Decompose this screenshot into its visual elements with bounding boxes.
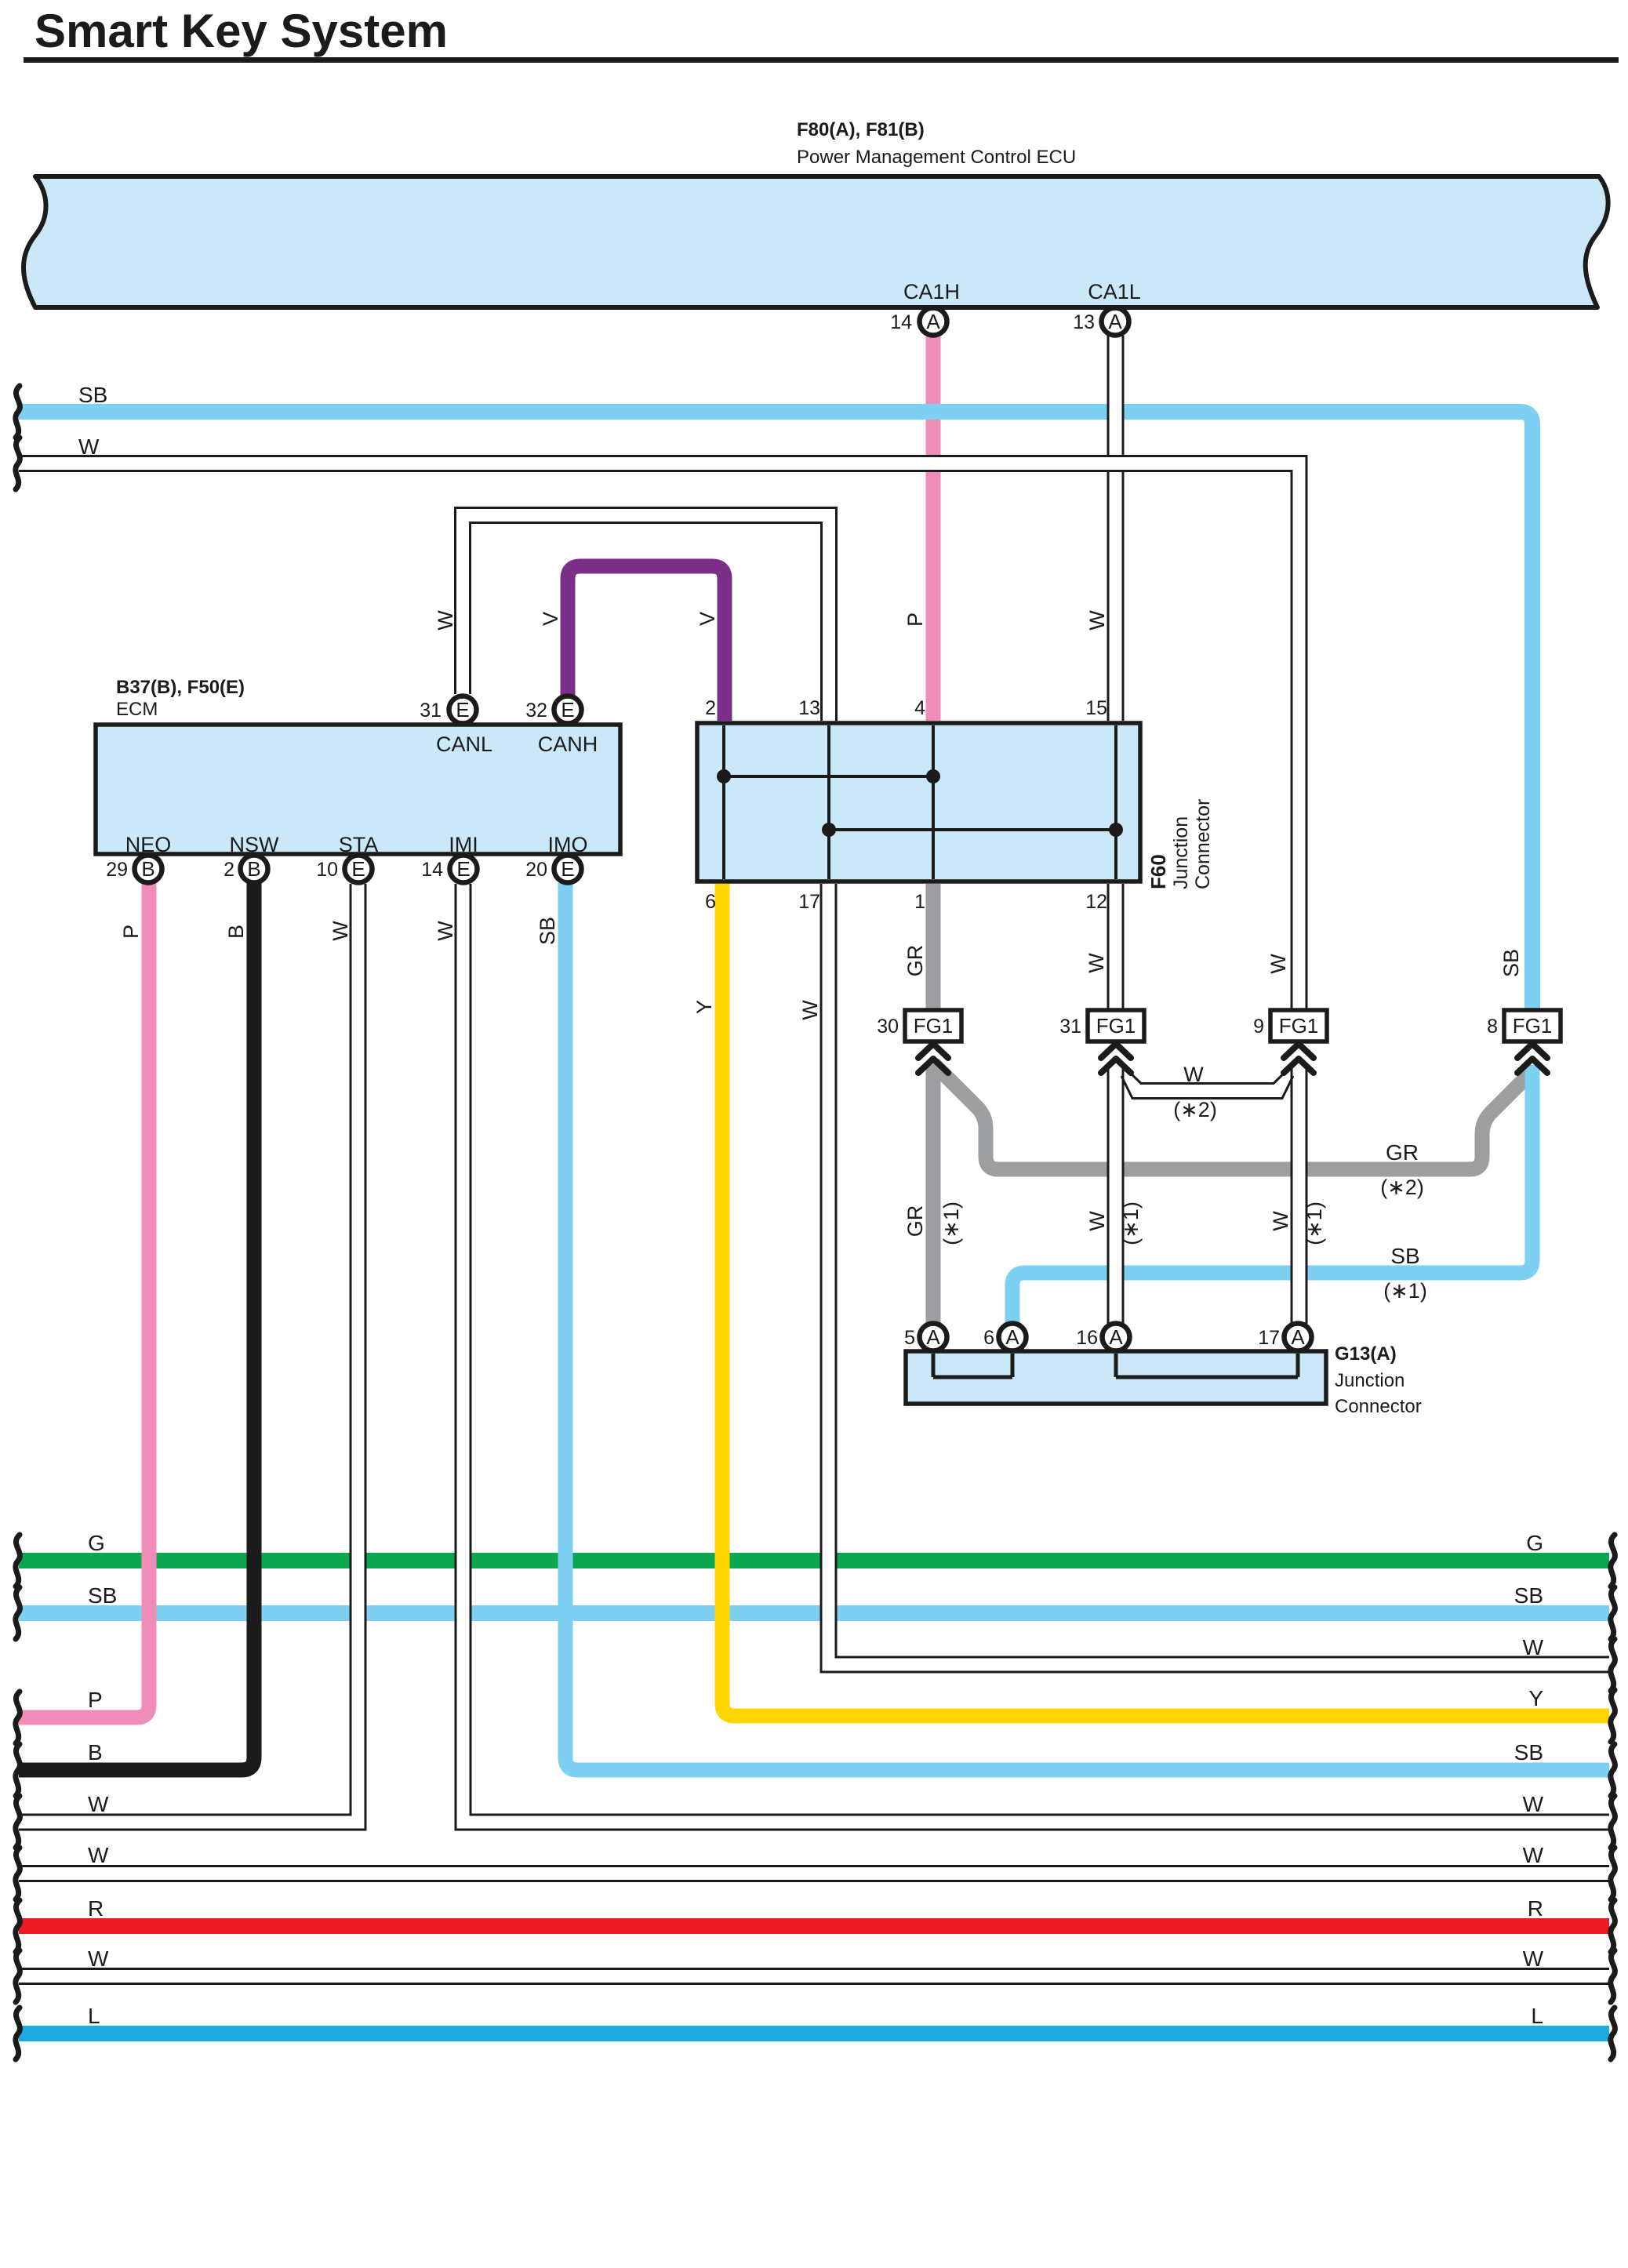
svg-text:16: 16	[1076, 1327, 1098, 1349]
connector FG1 no.9	[1270, 1010, 1327, 1041]
svg-text:SB: SB	[536, 917, 559, 945]
svg-text:15: 15	[1085, 697, 1107, 719]
svg-text:10: 10	[316, 859, 338, 881]
svg-text:E: E	[561, 857, 574, 881]
svg-text:A: A	[926, 310, 940, 333]
svg-text:G: G	[1526, 1531, 1543, 1555]
G13 pin 5(A)	[920, 1324, 947, 1351]
svg-text:CA1H: CA1H	[903, 280, 960, 303]
svg-text:20: 20	[525, 859, 547, 881]
wire W full-width bus row 9	[19, 1968, 1609, 1970]
svg-text:32: 32	[525, 700, 547, 721]
svg-text:(∗1): (∗1)	[1303, 1201, 1326, 1245]
svg-text:6: 6	[705, 891, 716, 913]
svg-text:(∗1): (∗1)	[1383, 1279, 1427, 1303]
G13 pin 6(A)	[999, 1324, 1027, 1351]
svg-text:W: W	[88, 1792, 109, 1816]
ECM B37(B),F50(E) box	[96, 725, 620, 854]
svg-text:W: W	[1266, 954, 1290, 974]
svg-text:CA1L: CA1L	[1088, 280, 1141, 303]
svg-text:CANH: CANH	[538, 732, 598, 756]
wire G bus (green)	[19, 1553, 1609, 1568]
ECM pin 14(E)	[450, 856, 478, 883]
svg-text:9: 9	[1253, 1016, 1264, 1038]
svg-text:F80(A), F81(B): F80(A), F81(B)	[797, 119, 925, 140]
svg-text:30: 30	[877, 1016, 899, 1038]
svg-text:31: 31	[1059, 1016, 1081, 1038]
wire W F60 pin12 to FG1-31	[1110, 884, 1122, 1012]
svg-text:W: W	[1085, 610, 1109, 631]
svg-text:P: P	[119, 925, 143, 939]
svg-text:13: 13	[798, 697, 820, 719]
connector FG1 no.30	[905, 1010, 961, 1041]
svg-text:FG1: FG1	[1096, 1014, 1136, 1038]
svg-text:W: W	[434, 921, 457, 941]
wire W (*2) between FG1-31 and FG1-9	[1127, 1070, 1288, 1084]
break symbols left edge	[16, 386, 20, 438]
svg-text:(∗1): (∗1)	[1119, 1201, 1143, 1245]
wire SB bus (sky blue)	[19, 1605, 1609, 1621]
svg-text:G13(A): G13(A)	[1335, 1343, 1397, 1365]
svg-text:B: B	[247, 857, 260, 881]
svg-text:ECM: ECM	[116, 699, 158, 720]
svg-text:Y: Y	[1528, 1686, 1543, 1710]
svg-text:E: E	[561, 698, 574, 721]
wire W full-width bus row 7	[19, 1865, 1609, 1867]
G13 pin 16(A)	[1103, 1324, 1130, 1351]
svg-text:P: P	[903, 612, 927, 627]
svg-text:W: W	[1523, 1843, 1544, 1867]
svg-text:8: 8	[1487, 1016, 1498, 1038]
wire GR F60 pin1 to FG1-30	[926, 884, 941, 1012]
svg-text:W: W	[1523, 1946, 1544, 1971]
svg-text:W: W	[1183, 1063, 1204, 1086]
svg-text:B: B	[224, 925, 248, 939]
svg-text:A: A	[1109, 1325, 1123, 1349]
svg-text:W: W	[88, 1843, 109, 1867]
svg-text:(∗2): (∗2)	[1380, 1176, 1424, 1199]
svg-text:GR: GR	[903, 945, 927, 977]
wire W ECM pin31 CANL to F60 pin13	[463, 515, 829, 721]
wire SB from ECM pin20 IMO to right break	[565, 883, 1609, 1770]
svg-text:Power Management Control ECU: Power Management Control ECU	[797, 147, 1076, 168]
svg-text:CANL: CANL	[436, 732, 492, 756]
wire W ECM pin14 IMI to right W bus	[463, 884, 1610, 1823]
svg-text:12: 12	[1085, 891, 1107, 913]
svg-text:G: G	[88, 1531, 105, 1555]
svg-text:B: B	[88, 1740, 103, 1765]
svg-text:B: B	[141, 857, 154, 881]
wire SB (*1) FG1-8 to G13 pin6	[1012, 1065, 1532, 1324]
svg-text:W: W	[1085, 953, 1108, 973]
svg-text:E: E	[351, 857, 365, 881]
svg-text:17: 17	[1258, 1327, 1280, 1349]
svg-text:E: E	[456, 698, 469, 721]
ECU pin 13(A)	[1102, 308, 1129, 336]
G13 pin 17(A)	[1285, 1324, 1312, 1351]
svg-text:1: 1	[914, 891, 925, 913]
svg-text:GR: GR	[903, 1205, 927, 1238]
svg-text:W: W	[329, 921, 352, 941]
svg-text:FG1: FG1	[914, 1014, 954, 1038]
svg-text:FG1: FG1	[1279, 1014, 1319, 1038]
wire W (*1) FG1-31 to G13 pin16	[1110, 1065, 1122, 1324]
svg-text:V: V	[696, 612, 719, 626]
wire W F60 pin17 to right W bus	[829, 884, 1610, 1665]
svg-text:(∗1): (∗1)	[939, 1201, 963, 1245]
svg-text:W: W	[798, 1000, 822, 1020]
svg-text:Connector: Connector	[1335, 1396, 1422, 1417]
svg-text:L: L	[1531, 2004, 1543, 2028]
svg-text:W: W	[1269, 1211, 1292, 1231]
wire V loop ECM pin32 CANH to F60 pin2	[568, 566, 725, 721]
svg-text:Smart Key System: Smart Key System	[35, 5, 448, 57]
connector FG1 no.8	[1504, 1010, 1561, 1041]
ECU pin 14(A)	[920, 308, 947, 336]
break symbols right edge	[1611, 1535, 1615, 1587]
svg-text:V: V	[539, 612, 562, 626]
svg-text:Connector: Connector	[1192, 799, 1214, 889]
svg-text:W: W	[434, 610, 457, 631]
junction connector F60 box with internal bus	[697, 723, 1140, 881]
ECM pin 31(E)	[449, 696, 477, 724]
junction connector G13(A) box with internal links	[906, 1351, 1326, 1404]
svg-text:R: R	[1528, 1896, 1543, 1921]
wire L bus (blue)	[19, 2026, 1609, 2041]
wire W (*1) FG1-9 to G13 pin17	[1293, 1065, 1306, 1324]
svg-text:SB: SB	[78, 383, 107, 407]
svg-text:13: 13	[1073, 311, 1095, 333]
svg-text:W: W	[1085, 1211, 1109, 1231]
wire P from ECM pin29 NEO to left break	[19, 883, 149, 1717]
svg-text:R: R	[88, 1896, 104, 1921]
svg-text:SB: SB	[1390, 1244, 1419, 1268]
svg-text:29: 29	[106, 859, 128, 881]
wire GR (*1) FG1-30 to G13 pin5	[926, 1065, 941, 1324]
connector FG1 no.31	[1088, 1010, 1144, 1041]
svg-text:SB: SB	[1514, 1583, 1543, 1608]
svg-text:(∗2): (∗2)	[1173, 1098, 1217, 1121]
wire W ECM pin10 STA to left W bus	[19, 884, 358, 1823]
svg-text:SB: SB	[88, 1583, 117, 1608]
svg-text:14: 14	[890, 311, 912, 333]
title underline	[24, 57, 1619, 63]
ECM pin 32(E)	[554, 696, 582, 724]
svg-text:F60: F60	[1147, 854, 1170, 889]
svg-text:W: W	[1523, 1635, 1544, 1659]
svg-text:5: 5	[904, 1327, 915, 1349]
svg-text:P: P	[88, 1688, 103, 1712]
svg-text:31: 31	[420, 700, 442, 721]
svg-text:A: A	[1005, 1325, 1019, 1349]
svg-text:17: 17	[798, 891, 820, 913]
ECM pin 20(E)	[554, 856, 582, 883]
wire B from ECM pin2 NSW to left break	[19, 883, 254, 1770]
svg-text:6: 6	[983, 1327, 994, 1349]
svg-text:E: E	[456, 857, 470, 881]
ECM pin 10(E)	[345, 856, 372, 883]
wire W top bus from left break to FG1-9	[19, 463, 1299, 1010]
svg-text:A: A	[1108, 310, 1122, 333]
wire P from ECU pin14 CA1H to F60 pin4	[926, 336, 941, 721]
wire R bus (red)	[19, 1918, 1609, 1934]
svg-text:GR: GR	[1386, 1140, 1419, 1165]
svg-text:W: W	[1523, 1792, 1544, 1816]
ECM pin 2(B)	[241, 856, 268, 883]
svg-text:A: A	[1291, 1325, 1305, 1349]
svg-text:14: 14	[421, 859, 443, 881]
ECM pin 29(B)	[135, 856, 162, 883]
svg-text:A: A	[926, 1325, 940, 1349]
wire Y from F60 pin6 to right break	[722, 884, 1609, 1716]
svg-text:FG1: FG1	[1513, 1014, 1553, 1038]
svg-text:2: 2	[223, 859, 234, 881]
svg-text:Y: Y	[692, 1000, 716, 1014]
wire SB top bus from left break to FG1-8	[19, 412, 1532, 1010]
svg-text:Junction: Junction	[1170, 816, 1192, 889]
svg-text:SB: SB	[1499, 949, 1523, 977]
svg-text:B37(B), F50(E): B37(B), F50(E)	[116, 677, 245, 698]
svg-text:2: 2	[705, 697, 716, 719]
svg-text:W: W	[78, 434, 100, 459]
svg-text:Junction: Junction	[1335, 1370, 1405, 1391]
svg-text:W: W	[88, 1946, 109, 1971]
svg-text:4: 4	[914, 697, 925, 719]
ECU F80(A),F81(B) Power Management Control ECU box	[24, 176, 1608, 307]
wire W ECU pin13 CA1L to F60 pin15	[1110, 336, 1122, 721]
svg-text:L: L	[88, 2004, 100, 2028]
wire GR (*2) FG1-30 to FG1-8	[933, 1063, 1529, 1169]
svg-text:SB: SB	[1514, 1740, 1543, 1765]
